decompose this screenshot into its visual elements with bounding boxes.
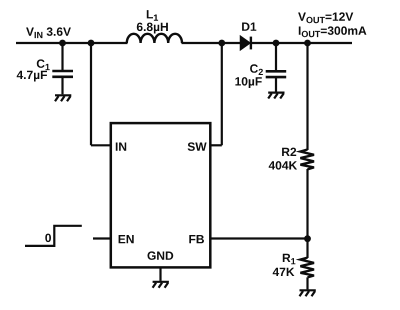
wire VIN rail (left of L1) [16,42,128,44]
label 0 (step level) [45,234,51,243]
pin label SW [188,142,207,151]
wire C2 top lead [275,43,277,70]
capacitor C2 plates [266,71,287,77]
wire C1 top lead [61,43,63,70]
label VIN 3.6V [26,27,71,38]
wire VOUT rail down to R2 [306,43,308,150]
wire D1 to VOUT rail end [251,42,352,44]
step source waveform at EN [25,226,82,246]
node VIN-IN junction [88,40,95,47]
inductor L1 [127,34,182,43]
ground symbol (C2) [268,93,284,99]
wire C2 bottom lead [275,77,277,92]
pin label IN [116,143,126,151]
label C1 [37,59,50,70]
node SW-rail junction [218,40,225,47]
label L1 [147,10,158,21]
node VOUT-C2 junction [273,40,280,47]
wire EN pin stub [93,237,111,239]
wire L1 to D1 [182,42,241,44]
value 4.7uF [17,71,47,82]
wire SW pin vertical to rail [221,43,223,145]
wire GND pin lead [159,267,161,281]
ground symbol (R1) [300,290,316,296]
value 404K [269,161,297,170]
label C2 [250,64,263,75]
label VOUT=12V [298,12,353,23]
pin label EN [119,235,134,243]
value 47K [273,268,295,276]
label D1 [242,23,256,31]
wire C1 bottom lead [61,77,63,95]
diode D1 [241,37,251,50]
wire IN pin vertical from VIN rail [90,43,92,145]
pin label FB [189,235,204,243]
label R1 [283,254,296,265]
node VIN-C1 junction [59,40,66,47]
pin label GND [148,251,174,260]
resistor R2 zigzag [300,150,314,170]
value 10uF [235,77,261,88]
node FB-R1 junction [304,235,311,242]
wire R1 bottom lead [306,277,308,289]
label R2 [282,148,296,156]
ground symbol (C1) [55,95,71,101]
ground symbol (IC GND) [153,282,169,288]
IC U1 box [111,123,211,267]
wire R2 to FB node [306,169,308,258]
label IOUT=300mA [299,26,367,37]
node VOUT-R2 junction [304,40,311,47]
wire SW pin horizontal [210,144,222,146]
wire IN pin horizontal [91,144,111,146]
value 6.8uH [137,23,168,34]
capacitor C1 plates [52,71,73,77]
wire FB pin to divider node [210,237,307,239]
resistor R1 zigzag [300,258,314,278]
